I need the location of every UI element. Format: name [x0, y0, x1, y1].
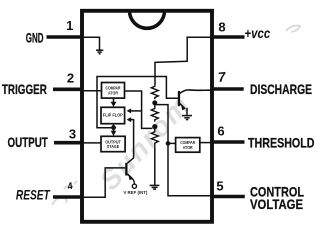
svg-text:ATOR: ATOR: [108, 90, 119, 95]
wire pin1 to ground: [82, 37, 100, 49]
Q1 emitter with arrow: [180, 103, 186, 110]
Q1 collector wire to pin 7: [180, 90, 211, 94]
arrow into flip-flop input 2: [127, 117, 132, 122]
pin 2 lead: [53, 88, 82, 92]
arrow into output stage top: [111, 128, 117, 136]
ground symbol near pin 1: [96, 50, 103, 54]
wire R3 to ground: [154, 146, 156, 185]
wire +vcc pin 8 to resistor chain: [155, 37, 211, 85]
junction dot at U2 input: [166, 141, 171, 146]
pin 7 lead: [212, 87, 244, 91]
svg-text:THRESHOLD: THRESHOLD: [248, 136, 315, 151]
ground symbol below Q1: [182, 108, 192, 120]
wire U2 to threshold pin 6: [200, 142, 211, 144]
CONTROL VOLTAGE label: [250, 185, 304, 212]
flip-flop U3: [101, 107, 125, 123]
arrow into flip-flop input 1: [127, 108, 132, 113]
pin 3 lead: [54, 141, 82, 145]
wire control-voltage net: node A to U2 input and pin 5: [155, 105, 211, 196]
junction node B (R2/R3): [152, 124, 157, 129]
ground symbol below resistor chain: [150, 185, 160, 189]
svg-text:ATOR: ATOR: [183, 145, 194, 150]
svg-text:3: 3: [69, 127, 76, 142]
svg-text:VOLTAGE: VOLTAGE: [250, 197, 303, 212]
junction node A (R1/R2): [152, 100, 157, 105]
svg-text:V REF (INT): V REF (INT): [123, 190, 148, 195]
wire flip-flop output node to discharge transistor base: [97, 77, 178, 128]
pin 4 lead: [53, 195, 82, 199]
svg-text:+vcc: +vcc: [244, 25, 270, 41]
svg-text:2: 2: [67, 70, 74, 85]
IC body DIP-8 outline: [82, 11, 212, 222]
comparator U2: [176, 138, 200, 153]
node Vref (INT) terminal circle: [132, 184, 136, 188]
comparator U1: [102, 83, 125, 99]
pin 1 lead: [47, 35, 83, 39]
svg-text:6: 6: [217, 124, 224, 139]
svg-text:STAGE: STAGE: [107, 144, 120, 149]
svg-text:8: 8: [218, 19, 225, 34]
pin 8 lead: [212, 35, 245, 39]
svg-text:DISCHARGE: DISCHARGE: [250, 82, 312, 97]
junction dot below flip-flop: [111, 125, 116, 130]
svg-text:RESET: RESET: [16, 188, 51, 203]
transistor Q1 discharge: base bar: [178, 91, 180, 106]
svg-text:1: 1: [66, 18, 73, 33]
wire reset pin 4 to Q2 base: [82, 168, 125, 197]
svg-text:GND: GND: [26, 31, 44, 46]
arrow U1 output to flip-flop: [111, 98, 117, 107]
wire trigger pin 2 to comparator U1: [82, 90, 102, 92]
resistor R3: [151, 128, 158, 146]
resistor R1: [151, 85, 158, 99]
svg-text:TRIGGER: TRIGGER: [2, 82, 47, 97]
Q2 emitter with arrow: [127, 174, 134, 185]
pin 5 lead: [212, 195, 245, 199]
svg-text:FLIP FLOP: FLIP FLOP: [103, 112, 123, 117]
output stage U4: [101, 136, 125, 151]
svg-text:OUTPUT: OUTPUT: [8, 135, 49, 150]
svg-text:5: 5: [216, 179, 223, 194]
transistor Q2 reset: base bar: [125, 163, 127, 176]
pin 6 lead: [212, 140, 245, 144]
wire junction to comparator U2: [168, 142, 176, 144]
wire branch to flip-flop input 1: [131, 110, 142, 112]
wire flip-flop input 2 from Q2 collector: [127, 120, 133, 164]
wire output stage to pin 3: [82, 142, 101, 144]
arrow into flip-flop bottom: [111, 124, 117, 128]
wire node B to U1 right input: [125, 91, 153, 128]
resistor R2: [151, 105, 158, 122]
